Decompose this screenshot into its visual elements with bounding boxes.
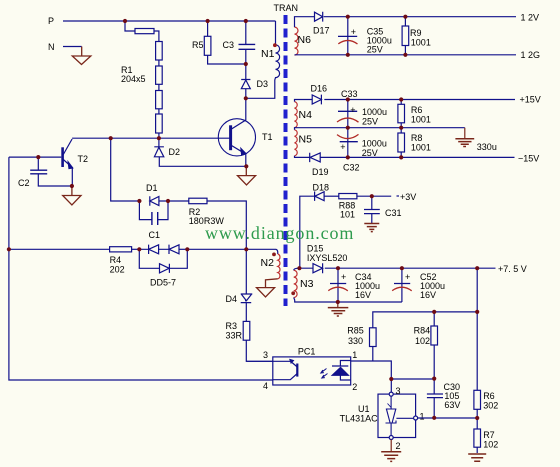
wire +7.5 down rail (476, 268, 478, 390)
svg-text:D1: D1 (146, 183, 158, 193)
node N1 phase dot (273, 43, 277, 47)
resistor R8 (1001) (398, 128, 405, 158)
svg-text:102: 102 (415, 336, 430, 346)
wire -15V rail (295, 156, 515, 158)
svg-text:25V: 25V (362, 117, 378, 127)
resistor R88 (339, 194, 357, 199)
wire P top rail (63, 20, 276, 22)
transformer winding N1 (246, 21, 280, 98)
transformer winding N3 (294, 270, 297, 297)
ground N input (72, 47, 91, 65)
svg-text:101: 101 (340, 210, 355, 220)
svg-text:+: + (341, 272, 346, 282)
wire 12G rail (295, 54, 517, 56)
ground C31 earth (364, 224, 379, 232)
node +7.5V label (498, 264, 527, 274)
svg-text:1 2V: 1 2V (521, 13, 540, 23)
resistor R85 (370, 328, 377, 361)
svg-text:D18: D18 (313, 183, 330, 193)
resistor R4 (9, 247, 139, 252)
svg-text:25V: 25V (367, 45, 383, 55)
ground N2 (257, 279, 278, 297)
svg-text:R85: R85 (347, 326, 364, 336)
svg-text:R4: R4 (110, 255, 122, 265)
diode D3 (241, 64, 250, 98)
diode D5-7 pair (139, 245, 187, 254)
svg-text:63V: 63V (444, 400, 460, 410)
wire T2 base (9, 156, 61, 158)
transformer winding N6 (295, 27, 299, 55)
transistor T2 (63, 139, 73, 186)
resistor R6 (302) (474, 390, 481, 429)
wire PC1 pin3 (246, 360, 272, 362)
wire PC1 pin4 label (263, 381, 268, 391)
transformer winding N5 (295, 130, 298, 156)
capacitor C30 (427, 379, 443, 418)
svg-text:16V: 16V (420, 290, 436, 300)
svg-text:DD5-7: DD5-7 (150, 278, 176, 288)
svg-text:C31: C31 (385, 208, 402, 218)
capacitor C32 (340, 128, 358, 158)
ground T1 emitter (238, 166, 256, 185)
optocoupler PC1 box (273, 357, 351, 385)
svg-text:1000u: 1000u (362, 139, 387, 149)
capacitor C31 (364, 196, 380, 223)
resistor R7 (474, 429, 481, 453)
wire left rail (9, 157, 273, 380)
svg-text:PC1: PC1 (298, 347, 316, 357)
svg-text:D15: D15 (307, 244, 324, 254)
svg-text:www.diangon.com: www.diangon.com (205, 223, 354, 243)
svg-text:N3: N3 (300, 278, 314, 290)
svg-text:1: 1 (420, 412, 425, 422)
resistor R6 (1001) (398, 100, 405, 128)
svg-text:1001: 1001 (411, 38, 431, 48)
svg-text:C33: C33 (341, 89, 358, 99)
svg-text:T1: T1 (262, 132, 273, 142)
svg-text:+: + (405, 272, 410, 282)
wire PC1 pin1 to U1 (351, 361, 435, 392)
watermark (205, 223, 354, 243)
svg-text:R6: R6 (483, 391, 495, 401)
wire mid 0V rail (295, 128, 465, 130)
diode D2 (zener) (154, 138, 246, 166)
wire D18 row (300, 196, 391, 268)
node P label (48, 16, 54, 26)
svg-text:25V: 25V (362, 148, 378, 158)
diode D18 (315, 192, 325, 201)
svg-text:TL431AC: TL431AC (340, 414, 379, 424)
svg-text:+15V: +15V (520, 95, 541, 105)
svg-text:C2: C2 (18, 178, 30, 188)
svg-text:D2: D2 (169, 147, 181, 157)
LED light arrows (321, 369, 328, 379)
transistor T1 (218, 98, 255, 166)
wire +7.5V rail (294, 268, 496, 270)
svg-text:3: 3 (263, 350, 268, 360)
wire 12V rail (295, 17, 517, 27)
svg-text:330: 330 (348, 336, 363, 346)
resistor R3 (243, 321, 273, 361)
transformer winding N4 (295, 102, 298, 128)
svg-text:D19: D19 (312, 167, 329, 177)
capacitor C3 (239, 21, 256, 64)
svg-text:1000u: 1000u (362, 107, 387, 117)
wire row to N2 (187, 249, 277, 254)
ground R7 earth (468, 454, 486, 461)
phototransistor PC1 (273, 359, 298, 379)
resistor R5 (204, 21, 246, 64)
transformer winding N2 (278, 254, 280, 279)
capacitor C35 arc (338, 40, 357, 44)
svg-text:+: + (350, 105, 355, 115)
ground T2 emitter (63, 186, 81, 205)
wire U1 pin1 node (418, 417, 478, 419)
svg-text:D3: D3 (257, 79, 269, 89)
svg-text:U1: U1 (358, 404, 370, 414)
capacitor C1 (139, 201, 168, 225)
svg-text:TRAN: TRAN (274, 3, 299, 13)
svg-text:3: 3 (396, 386, 401, 396)
svg-text:P: P (48, 16, 54, 26)
svg-text:R7: R7 (483, 430, 495, 440)
svg-text:302: 302 (483, 401, 498, 411)
svg-text:+7. 5 V: +7. 5 V (498, 264, 527, 274)
diode D15 (313, 263, 323, 273)
svg-text:N1: N1 (261, 48, 275, 60)
svg-text:N2: N2 (261, 257, 275, 269)
node -15V label (518, 154, 539, 164)
node N3 phase dot (291, 291, 295, 295)
svg-text:R84: R84 (414, 326, 431, 336)
wire N stub (63, 46, 82, 48)
resistor R9 (402, 17, 409, 55)
svg-text:C1: C1 (149, 230, 161, 240)
wire R85/R84 feed (373, 312, 477, 328)
svg-text:R5: R5 (192, 40, 204, 50)
capacitor C35 (338, 17, 357, 55)
svg-text:+: + (351, 27, 356, 37)
ground C34 earth (328, 302, 349, 316)
svg-text:2: 2 (352, 382, 357, 392)
svg-text:T2: T2 (78, 154, 89, 164)
capacitor C2 (30, 157, 72, 186)
svg-text:330u: 330u (477, 142, 497, 152)
svg-text:D17: D17 (313, 26, 330, 36)
capacitor C52 (394, 268, 410, 302)
svg-text:204x5: 204x5 (121, 74, 146, 84)
svg-text:102: 102 (483, 440, 498, 450)
svg-text:1: 1 (352, 350, 357, 360)
capacitor C32 arc (337, 134, 359, 138)
node 12V label (521, 13, 540, 23)
svg-text:1 2G: 1 2G (521, 50, 541, 60)
diode D17 (315, 12, 323, 22)
wire branch x111 (111, 138, 140, 201)
resistor R2 (189, 198, 247, 249)
capacitor C34 arc (328, 287, 348, 291)
wire bottom loop N3 (294, 298, 402, 303)
svg-text:1001: 1001 (411, 115, 431, 125)
svg-text:R8: R8 (411, 133, 423, 143)
diode D4 (to opto) (241, 249, 253, 321)
regulator U1 box (378, 392, 418, 439)
ground 0V earth (455, 128, 474, 147)
svg-text:R9: R9 (410, 28, 422, 38)
svg-text:D4: D4 (226, 294, 238, 304)
svg-text:N4: N4 (299, 109, 313, 121)
svg-text:N5: N5 (299, 134, 313, 146)
svg-text:1001: 1001 (411, 143, 431, 153)
node N2 phase dot (272, 253, 276, 257)
svg-text:IXYSL520: IXYSL520 (307, 253, 348, 263)
svg-text:−15V: −15V (518, 154, 539, 164)
LED PC1 (332, 361, 351, 381)
capacitor C33 arc (337, 118, 359, 122)
resistor R1 (204x5 chain) (125, 21, 162, 138)
wire base rail T2-T1 (72, 137, 229, 139)
svg-text:+: + (340, 142, 345, 152)
svg-text:N: N (48, 42, 55, 52)
capacitor C34 (330, 268, 346, 302)
capacitor C52 arc (392, 287, 412, 291)
svg-text:C32: C32 (343, 163, 360, 173)
node +15V label (520, 95, 541, 105)
svg-text:16V: 16V (355, 290, 371, 300)
svg-text:+3V: +3V (400, 192, 416, 202)
capacitor C33 (338, 100, 357, 128)
svg-text:D16: D16 (311, 84, 328, 94)
wire +15V rail (295, 100, 516, 102)
ground U1 earth (381, 440, 401, 462)
diode D19 (310, 153, 321, 162)
svg-text:C3: C3 (223, 40, 235, 50)
node +3V label (397, 195, 400, 197)
diode D1 (150, 196, 189, 205)
svg-text:N6: N6 (298, 34, 312, 46)
svg-text:R3: R3 (226, 321, 238, 331)
resistor R84 (431, 312, 438, 379)
svg-text:202: 202 (110, 265, 125, 275)
node N label (48, 42, 55, 52)
regulator U1 internal symbol (386, 396, 414, 435)
svg-text:2: 2 (396, 441, 401, 451)
transformer TRAN core (284, 15, 288, 306)
svg-text:R6: R6 (411, 105, 423, 115)
diode D16 (312, 95, 321, 105)
node 12G label (521, 50, 541, 60)
svg-text:33R: 33R (226, 331, 243, 341)
svg-text:4: 4 (263, 381, 268, 391)
diode D5-7 bypass (139, 249, 187, 273)
